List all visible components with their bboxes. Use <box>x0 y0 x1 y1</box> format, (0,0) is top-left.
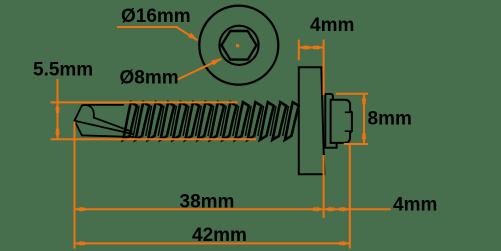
arrowhead leader Dia8mm <box>211 59 221 66</box>
arrow 42mm left <box>75 241 82 246</box>
dim 4mm top line <box>299 47 324 49</box>
drill flute edge 2 <box>75 121 134 135</box>
svg-text:4mm: 4mm <box>393 195 437 216</box>
hex head side view <box>331 100 352 143</box>
thread back line 3 <box>158 106 164 136</box>
thread back line 9 <box>233 106 239 136</box>
arrow 4mm bottom right <box>343 207 350 212</box>
thread back line 11 <box>258 106 264 136</box>
head facet line upper <box>345 111 352 113</box>
thread crest 8 <box>210 102 224 140</box>
arrow 42mm right <box>343 241 350 246</box>
svg-text:5.5mm: 5.5mm <box>33 59 93 80</box>
drill body top edge <box>87 104 123 106</box>
leader Dia8mm <box>178 59 222 80</box>
thread crest 2 <box>135 102 149 140</box>
thread crest 14 <box>285 102 299 140</box>
thread crest 11 <box>248 102 262 140</box>
thread crest 10 <box>235 102 249 140</box>
leader Dia16mm <box>117 27 198 40</box>
thread back line 8 <box>220 106 226 136</box>
svg-text:4mm: 4mm <box>310 15 354 36</box>
thread crest 1 <box>123 102 137 140</box>
outer circle washer top view <box>199 6 278 85</box>
svg-text:8mm: 8mm <box>368 109 412 130</box>
svg-text:Ø8mm: Ø8mm <box>120 68 179 89</box>
ext 8mm bottom <box>344 143 368 145</box>
thread back line 7 <box>208 106 214 136</box>
thread crest 5 <box>173 102 187 140</box>
arrow 5.5mm up <box>55 103 60 110</box>
arrow 8mm up <box>362 94 367 101</box>
thread crest 13 <box>272 102 286 140</box>
drill flute edge 1 <box>94 118 132 132</box>
drill point chisel cap <box>82 105 94 118</box>
thread back line 13 <box>283 106 289 136</box>
ext line drill tip <box>74 122 76 249</box>
arrowhead leader Dia16mm <box>188 33 197 41</box>
ext line washer seat (lower) <box>323 155 325 218</box>
dim 4mm bottom line <box>324 208 391 210</box>
thread OD bottom line <box>51 138 256 140</box>
thread crest 12 <box>260 102 274 140</box>
arrow 4mm bottom left <box>324 207 331 212</box>
arrow 4mm top left <box>299 45 306 50</box>
dim 8mm line <box>363 94 365 144</box>
thread back line 12 <box>270 106 276 136</box>
arrow 38mm right <box>317 207 324 212</box>
ext 8mm top <box>336 93 368 95</box>
thread crest 7 <box>198 102 212 140</box>
thread back line 1 <box>133 106 139 136</box>
svg-text:38mm: 38mm <box>180 191 235 212</box>
head flange corner <box>331 94 333 100</box>
thread back line 10 <box>245 106 251 136</box>
ext line washer seat (upper) <box>323 40 325 95</box>
arrow 38mm left <box>75 207 82 212</box>
arrow 4mm top right <box>317 45 324 50</box>
hex socket top view <box>222 31 257 60</box>
drill body bottom edge <box>82 135 134 137</box>
dim 38mm line <box>75 208 324 210</box>
ext line head right <box>349 144 351 249</box>
thread crest 4 <box>160 102 174 140</box>
arrow 8mm down <box>362 137 367 144</box>
dim 5.5mm line <box>57 79 59 139</box>
thread crest 3 <box>148 102 162 140</box>
thread crest 9 <box>223 102 237 140</box>
center mark top view <box>236 44 239 47</box>
ext line washer left <box>298 40 300 61</box>
svg-text:Ø16mm: Ø16mm <box>121 6 191 27</box>
drill point upper-left edge <box>75 106 82 121</box>
thread back line 5 <box>183 106 189 136</box>
head flange outline <box>325 94 336 148</box>
arrow 5.5mm down <box>55 132 60 139</box>
svg-text:42mm: 42mm <box>192 225 247 246</box>
dim 42mm line <box>75 242 350 244</box>
thread back line 2 <box>146 106 152 136</box>
thread back line 6 <box>196 106 202 136</box>
thread OD top line <box>51 101 238 103</box>
washer side view <box>299 67 325 174</box>
thread back line 4 <box>171 106 177 136</box>
drill point lower edge <box>75 121 82 136</box>
head facet line lower <box>345 130 352 132</box>
inner circle head top view <box>219 26 258 65</box>
thread crest 6 <box>185 102 199 140</box>
